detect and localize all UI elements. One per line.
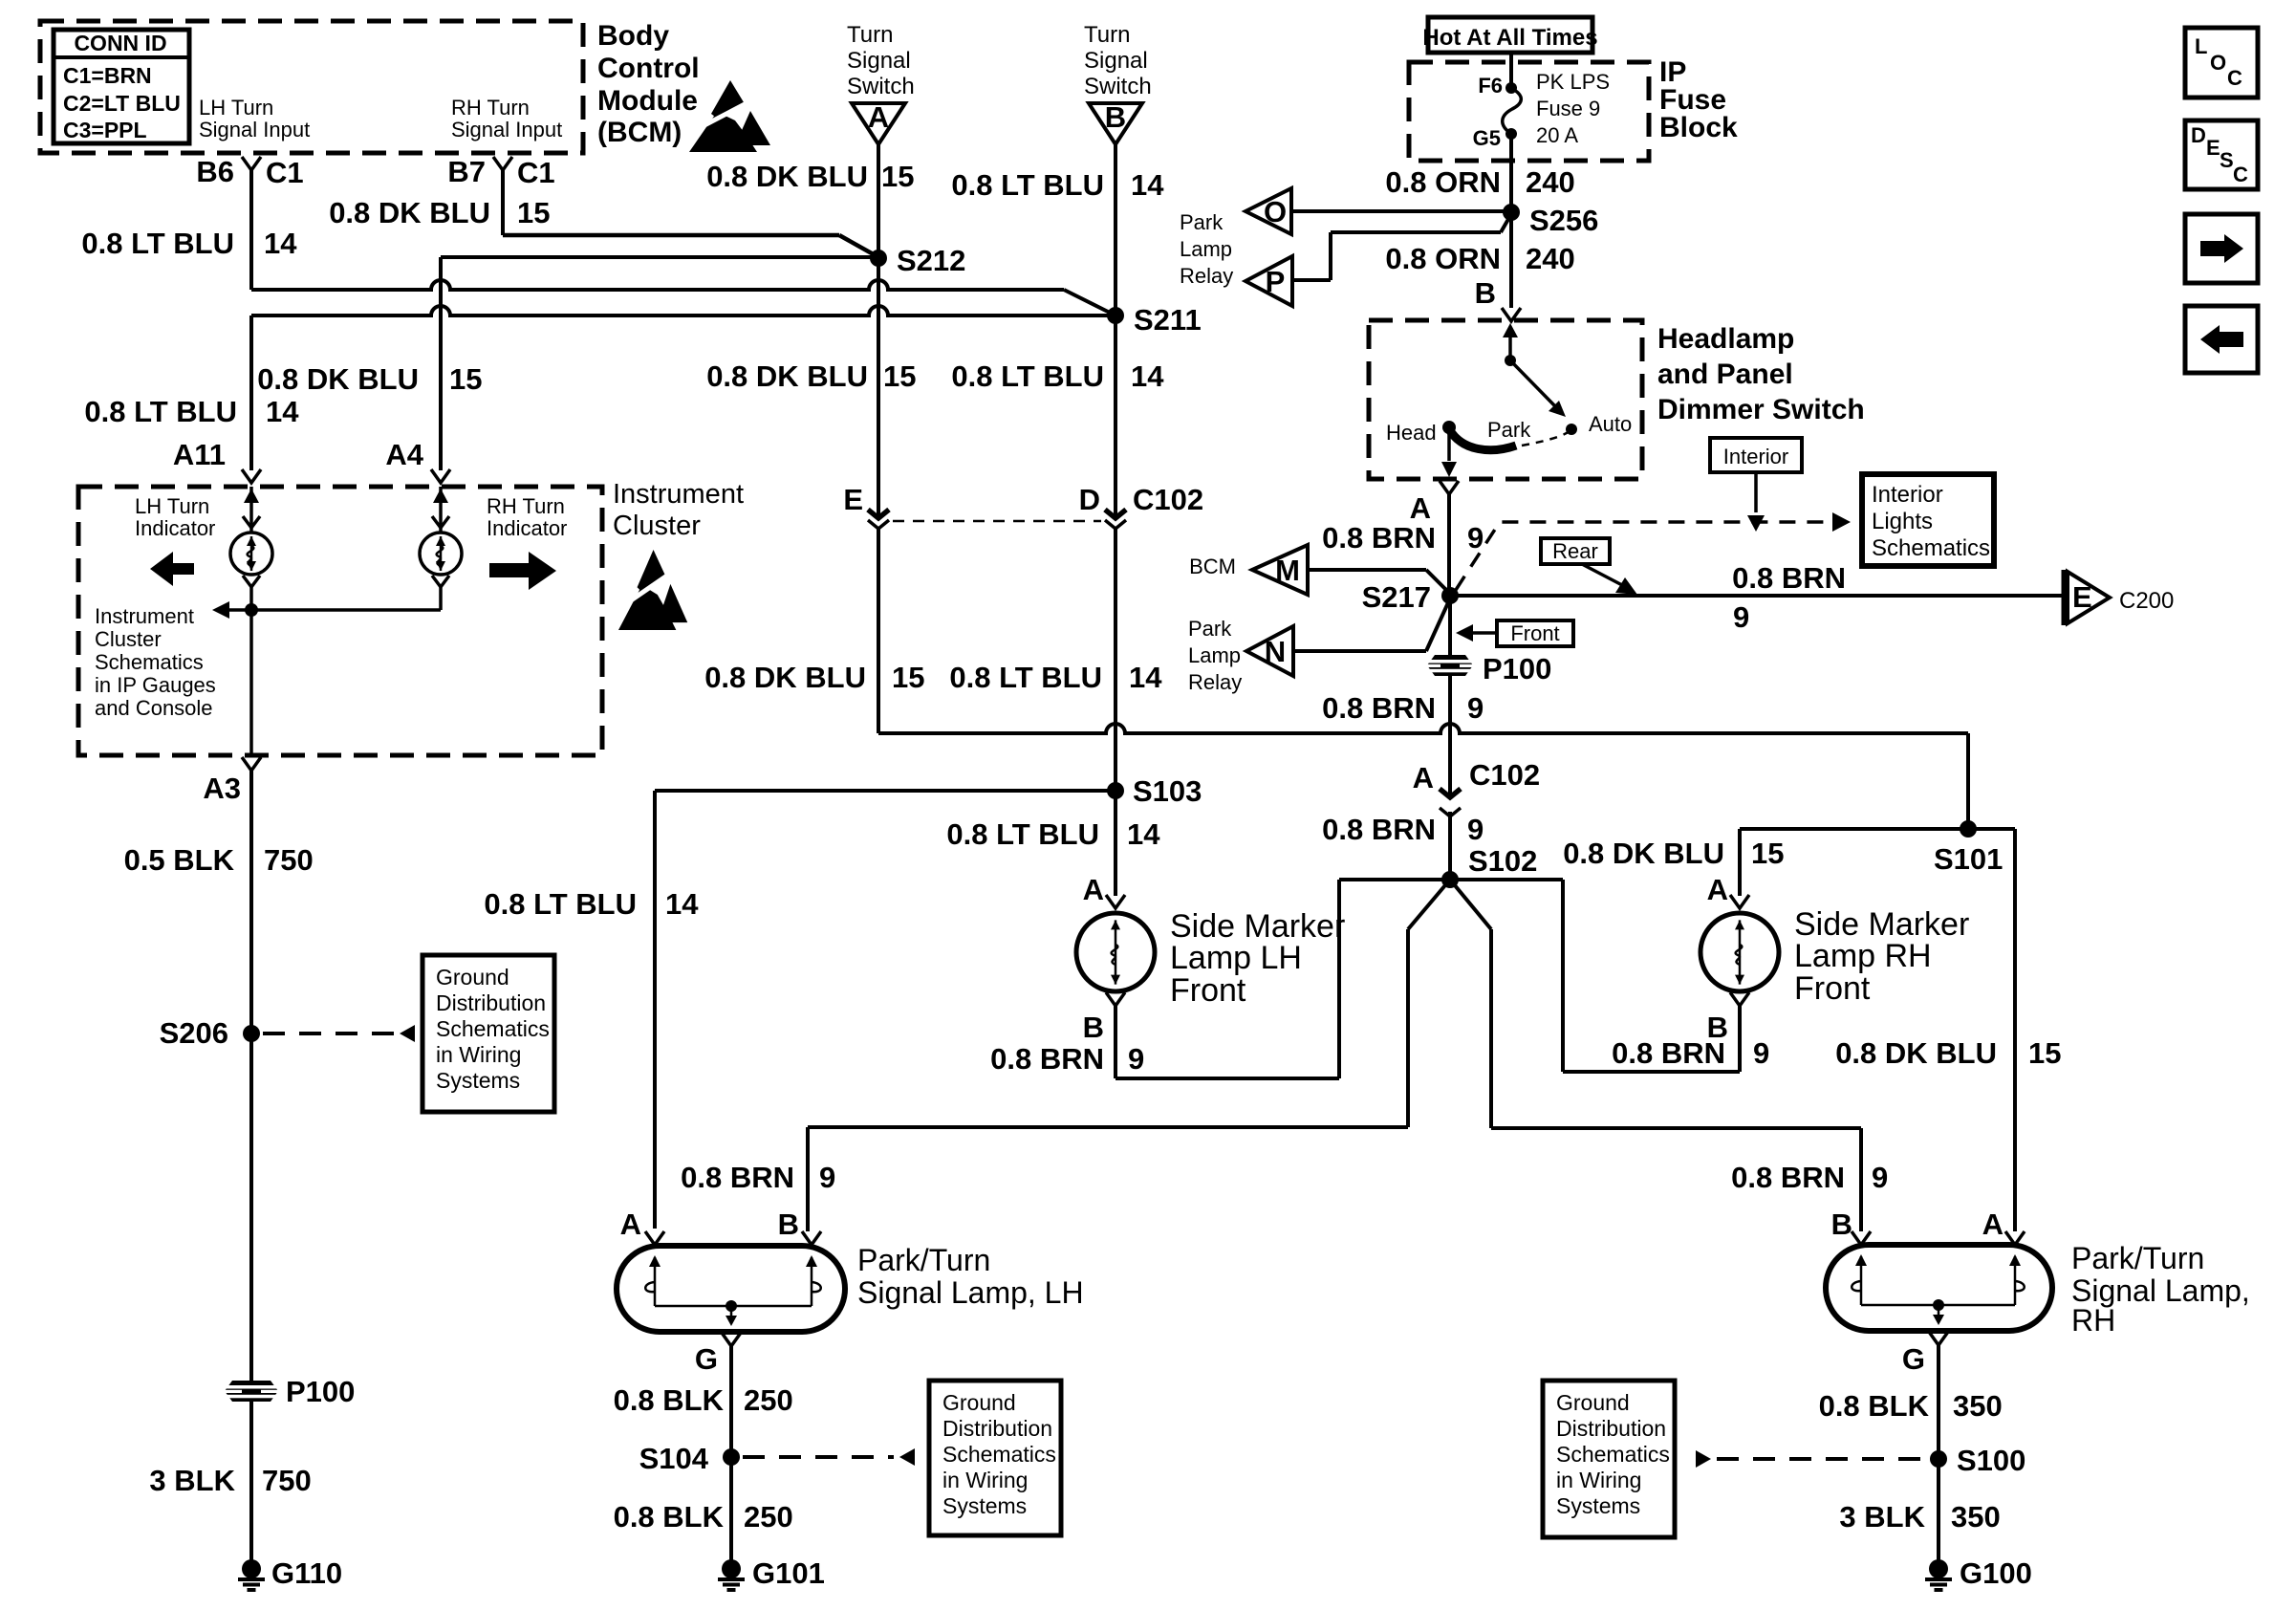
svg-text:0.8 BRN: 0.8 BRN: [1731, 1161, 1845, 1194]
connector pin A11 of instrument cluster: [242, 469, 261, 483]
dimmer switch dashed arc to Auto: [1522, 431, 1570, 446]
dashed reference from S104 to ground distribution box: [743, 1455, 894, 1459]
svg-text:14: 14: [1131, 168, 1164, 202]
svg-text:G101: G101: [752, 1556, 825, 1590]
svg-text:Turn: Turn: [847, 22, 893, 48]
wire 0.8 ORN 240 from fuse to S256: [1509, 134, 1513, 212]
svg-text:RH Turn: RH Turn: [487, 494, 565, 518]
label box Front: [1497, 620, 1573, 646]
connector pin B of LH side marker lamp: [1106, 992, 1125, 1006]
wire turn signal switch A line 0.8 DK BLU 15: [877, 144, 880, 507]
svg-text:in Wiring: in Wiring: [1556, 1468, 1641, 1492]
svg-text:G: G: [695, 1342, 718, 1376]
svg-text:F6: F6: [1478, 74, 1503, 98]
svg-text:Schematics: Schematics: [942, 1442, 1056, 1467]
svg-text:S: S: [2220, 148, 2234, 172]
svg-text:15: 15: [881, 160, 914, 193]
svg-text:9: 9: [1128, 1042, 1144, 1076]
connector C102 pin E: [877, 506, 880, 516]
grommet P100 left: [225, 1381, 278, 1402]
wire 3 BLK 750 from P100 to G110: [249, 1402, 253, 1560]
svg-text:B: B: [1105, 100, 1126, 134]
svg-text:PK LPS: PK LPS: [1536, 70, 1610, 94]
svg-text:Park: Park: [1180, 210, 1224, 234]
svg-text:Relay: Relay: [1180, 264, 1233, 288]
splice S104: [723, 1448, 740, 1466]
svg-text:in Wiring: in Wiring: [942, 1468, 1028, 1492]
wire LT BLU from S211 to instrument cluster A11: [251, 306, 1116, 315]
wire LT BLU from S103 to LH park/turn lamp: [655, 789, 1116, 793]
svg-text:C1=BRN: C1=BRN: [63, 63, 152, 88]
svg-text:15: 15: [1751, 837, 1784, 870]
splice S211: [1107, 307, 1124, 324]
splice S101: [1960, 820, 1977, 838]
svg-text:A: A: [620, 1207, 641, 1241]
svg-text:9: 9: [1753, 1036, 1769, 1070]
svg-text:RH Turn: RH Turn: [451, 96, 530, 120]
svg-text:M: M: [1275, 554, 1300, 587]
connector pin A below dimmer switch: [1440, 481, 1459, 494]
dimmer switch wiper arm to Auto: [1510, 360, 1556, 407]
connector pin A of LH park/turn lamp: [645, 1231, 664, 1245]
wire 0.8 BLK 250 from S104 to G101: [729, 1457, 733, 1560]
svg-text:B: B: [778, 1207, 799, 1241]
svg-text:0.8 BRN: 0.8 BRN: [1732, 561, 1846, 595]
connector park lamp relay P: [1245, 256, 1292, 306]
svg-text:A: A: [1707, 873, 1728, 906]
svg-text:9: 9: [819, 1161, 835, 1194]
dashed connector divider C102: [893, 520, 1101, 523]
dashed reference from S206 to ground distribution box: [263, 1032, 394, 1035]
wire 0.8 ORN 240 from S256 to dimmer switch B: [1509, 212, 1513, 308]
wire B7 RH turn signal input 0.8 DK BLU 15 down from BCM: [501, 170, 505, 235]
svg-text:Dimmer Switch: Dimmer Switch: [1657, 394, 1865, 425]
svg-text:Lamp RH: Lamp RH: [1794, 938, 1932, 974]
svg-text:0.8 DK BLU: 0.8 DK BLU: [706, 359, 868, 393]
svg-text:Lamp: Lamp: [1180, 237, 1232, 261]
svg-text:0.8 BRN: 0.8 BRN: [1322, 813, 1436, 846]
svg-text:0.5 BLK: 0.5 BLK: [124, 843, 235, 877]
connector entry arrows LH indicator: [249, 487, 253, 533]
label box Interior: [1710, 438, 1802, 472]
svg-text:0.8 ORN: 0.8 ORN: [1385, 165, 1501, 199]
svg-text:0.8 LT BLU: 0.8 LT BLU: [951, 168, 1104, 202]
svg-text:240: 240: [1526, 165, 1575, 199]
svg-text:Park: Park: [1487, 418, 1531, 442]
connector pin B7 C1 of BCM: [493, 157, 512, 170]
wire turn signal switch B line 0.8 LT BLU 14: [1114, 144, 1117, 507]
wire BRN from S102 to RH park/turn lamp B: [1450, 880, 1491, 929]
svg-text:0.8 LT BLU: 0.8 LT BLU: [84, 395, 237, 428]
svg-text:G: G: [1902, 1342, 1925, 1376]
CONN ID legend box: [54, 30, 189, 143]
svg-text:S211: S211: [1134, 303, 1202, 337]
splice S206: [243, 1025, 260, 1042]
reference box Ground Distribution Schematics middle: [929, 1381, 1061, 1535]
svg-text:Systems: Systems: [942, 1493, 1027, 1518]
svg-text:Interior: Interior: [1723, 445, 1788, 468]
svg-text:Cluster: Cluster: [613, 511, 701, 541]
ground G110: [242, 1559, 261, 1578]
connector Turn Signal Switch A: [852, 103, 905, 144]
svg-text:Lights: Lights: [1872, 509, 1933, 534]
connector exit LH indicator: [243, 576, 260, 587]
svg-text:Instrument: Instrument: [613, 479, 744, 510]
LH turn arrow icon: [150, 552, 194, 586]
svg-text:0.8 BLK: 0.8 BLK: [614, 1383, 725, 1417]
splice S100: [1930, 1450, 1947, 1468]
connector C102 pin A: [1448, 768, 1452, 795]
svg-text:Cluster: Cluster: [95, 627, 162, 651]
svg-text:S100: S100: [1957, 1444, 2025, 1477]
svg-text:14: 14: [1131, 359, 1164, 393]
fuse block dashed outline: [1409, 62, 1649, 161]
wire from hot feed into fuse block: [1509, 53, 1513, 88]
wire BRN from S102 to LH side marker B: [1339, 878, 1450, 881]
module instrument cluster dashed outline: [78, 487, 602, 755]
svg-text:Instrument: Instrument: [95, 604, 194, 628]
RH turn arrow icon: [489, 552, 556, 590]
svg-text:C1: C1: [266, 156, 304, 189]
svg-text:15: 15: [883, 359, 916, 393]
splice S256: [1503, 204, 1520, 221]
svg-text:and Panel: and Panel: [1657, 359, 1793, 390]
svg-text:14: 14: [665, 887, 699, 921]
ESD sensitivity symbol at BCM: [689, 112, 757, 152]
svg-text:0.8 DK BLU: 0.8 DK BLU: [1835, 1036, 1997, 1070]
wire joining indicators to A3 output: [251, 608, 441, 612]
svg-text:0.8 BRN: 0.8 BRN: [990, 1042, 1104, 1076]
svg-text:C: C: [2227, 66, 2242, 90]
connector park lamp relay N: [1246, 626, 1293, 676]
dimmer switch common feed arrow: [1508, 337, 1512, 359]
svg-text:Relay: Relay: [1188, 670, 1242, 694]
svg-text:Indicator: Indicator: [487, 516, 567, 540]
connector pin A3 of instrument cluster: [242, 757, 261, 771]
svg-text:C1: C1: [517, 156, 555, 189]
svg-text:(BCM): (BCM): [597, 117, 682, 148]
svg-text:CONN ID: CONN ID: [74, 31, 166, 55]
svg-text:C200: C200: [2119, 588, 2174, 614]
wire DK BLU from B7 to splice S212: [503, 233, 839, 238]
svg-text:A11: A11: [173, 438, 226, 471]
svg-text:Fuse 9: Fuse 9: [1536, 97, 1600, 120]
svg-text:S104: S104: [639, 1442, 709, 1475]
svg-text:750: 750: [264, 843, 314, 877]
svg-text:350: 350: [1951, 1500, 2001, 1534]
svg-text:Signal: Signal: [1084, 48, 1148, 74]
svg-text:RH: RH: [2071, 1303, 2115, 1338]
connector pin B of RH park/turn lamp: [1852, 1231, 1871, 1245]
svg-text:0.8 BLK: 0.8 BLK: [614, 1500, 725, 1534]
svg-text:E: E: [2072, 580, 2092, 614]
dashed reference from ground distribution box to S100: [1696, 1450, 1711, 1468]
svg-text:Hot At All Times: Hot At All Times: [1422, 25, 1597, 51]
svg-text:C2=LT BLU: C2=LT BLU: [63, 91, 181, 116]
svg-text:S102: S102: [1468, 844, 1537, 878]
svg-text:Park: Park: [1188, 617, 1232, 641]
svg-text:0.8 BRN: 0.8 BRN: [1322, 521, 1436, 555]
svg-text:0.8 BRN: 0.8 BRN: [681, 1161, 794, 1194]
svg-text:O: O: [2210, 51, 2226, 75]
lamp RH Turn Indicator: [439, 487, 443, 533]
svg-text:Module: Module: [597, 85, 698, 117]
wire DK BLU from S212 to instrument cluster A4: [441, 255, 878, 259]
svg-text:Front: Front: [1170, 972, 1246, 1009]
dimmer switch contact Head: [1442, 421, 1456, 434]
svg-text:15: 15: [892, 661, 924, 694]
arrow from Front box to wire: [1473, 631, 1497, 635]
connector exit RH indicator: [432, 576, 449, 587]
svg-text:Schematics: Schematics: [1872, 535, 1990, 561]
wire 0.8 LT BLU 14 from C102-D down to S103: [1114, 527, 1117, 896]
wire to BCM M: [1308, 568, 1426, 572]
svg-text:Ground: Ground: [1556, 1390, 1630, 1415]
nav box LOC: [2185, 28, 2258, 98]
svg-text:0.8 BLK: 0.8 BLK: [1819, 1389, 1930, 1423]
svg-text:15: 15: [517, 196, 550, 229]
svg-text:Systems: Systems: [436, 1068, 520, 1093]
wire 3 BLK 350 from S100 to G100: [1937, 1459, 1940, 1560]
ground G101: [722, 1559, 741, 1578]
svg-text:Headlamp: Headlamp: [1657, 323, 1794, 355]
module U1 Body Control Module dashed outline: [40, 21, 583, 153]
lamp Park/Turn Signal Lamp LH: [617, 1246, 845, 1332]
svg-text:A: A: [1982, 1207, 2004, 1241]
svg-text:Systems: Systems: [1556, 1493, 1640, 1518]
reference box Interior Lights Schematics: [1862, 474, 1994, 566]
reference box Ground Distribution Schematics right: [1543, 1381, 1675, 1537]
svg-text:Indicator: Indicator: [135, 516, 215, 540]
svg-text:Lamp: Lamp: [1188, 643, 1241, 667]
svg-text:15: 15: [449, 362, 482, 396]
connector pin A of LH side marker lamp: [1106, 895, 1125, 908]
svg-text:S101: S101: [1934, 842, 2003, 876]
ground G100: [1929, 1559, 1948, 1578]
arrow from Interior box to dashed route: [1754, 472, 1758, 512]
svg-text:9: 9: [1872, 1161, 1888, 1194]
svg-text:E: E: [2206, 136, 2220, 160]
svg-text:Signal Input: Signal Input: [199, 118, 310, 141]
svg-text:250: 250: [744, 1383, 793, 1417]
svg-text:Distribution: Distribution: [942, 1416, 1052, 1441]
svg-text:240: 240: [1526, 242, 1575, 275]
connector C200 pin E: [2062, 570, 2067, 625]
svg-text:Signal: Signal: [847, 48, 911, 74]
dimmer switch output arrow down to A: [1447, 429, 1451, 461]
splice S217: [1441, 587, 1459, 604]
dimmer switch contact Auto: [1566, 424, 1577, 435]
svg-text:Turn: Turn: [1084, 22, 1130, 48]
nav box arrow right: [2185, 214, 2258, 283]
wire to park lamp relay P: [1501, 214, 1511, 232]
lamp Park/Turn Signal Lamp RH: [1826, 1245, 2052, 1331]
svg-text:D: D: [1079, 483, 1100, 516]
svg-text:Control: Control: [597, 53, 700, 84]
svg-text:Distribution: Distribution: [436, 990, 546, 1015]
svg-text:B6: B6: [196, 155, 234, 188]
svg-text:Park/Turn: Park/Turn: [857, 1243, 990, 1277]
svg-text:Head: Head: [1386, 421, 1437, 445]
svg-text:0.8 DK BLU: 0.8 DK BLU: [257, 362, 419, 396]
lamp Side Marker RH Front: [1700, 913, 1779, 991]
svg-text:Ground: Ground: [436, 965, 509, 990]
splice S212: [870, 250, 887, 267]
svg-text:Lamp LH: Lamp LH: [1170, 940, 1302, 976]
svg-text:S206: S206: [160, 1016, 228, 1050]
svg-text:9: 9: [1733, 600, 1749, 634]
svg-text:Switch: Switch: [1084, 74, 1152, 99]
dimmer switch thick arc Head position: [1449, 429, 1516, 450]
connector pin B of LH park/turn lamp: [802, 1231, 821, 1245]
reference box Ground Distribution Schematics left: [422, 955, 554, 1112]
grommet P100 front: [1448, 596, 1452, 655]
svg-text:0.8 LT BLU: 0.8 LT BLU: [81, 227, 234, 260]
svg-text:14: 14: [264, 227, 297, 260]
svg-text:3 BLK: 3 BLK: [149, 1464, 235, 1497]
wire 0.8 BLK 350 from RH lamp G to S100: [1937, 1345, 1940, 1459]
svg-text:0.8 DK BLU: 0.8 DK BLU: [706, 160, 868, 193]
wire 0.8 BLK 250 from LH lamp G to S104: [729, 1346, 733, 1457]
svg-text:G100: G100: [1960, 1556, 2032, 1590]
svg-text:Signal Lamp, LH: Signal Lamp, LH: [857, 1275, 1084, 1310]
svg-text:C102: C102: [1469, 758, 1540, 792]
svg-text:0.8 DK BLU: 0.8 DK BLU: [704, 661, 866, 694]
wire 0.8 DK BLU 15 from C102-E down and right to S101: [877, 527, 880, 733]
svg-text:Switch: Switch: [847, 74, 915, 99]
svg-text:750: 750: [262, 1464, 312, 1497]
svg-text:0.8 DK BLU: 0.8 DK BLU: [329, 196, 490, 229]
lamp LH Turn Indicator: [230, 533, 272, 575]
svg-text:Front: Front: [1794, 970, 1871, 1007]
wire from S206 to P100: [249, 1033, 253, 1381]
svg-text:Schematics: Schematics: [436, 1016, 550, 1041]
svg-text:Park/Turn: Park/Turn: [2071, 1241, 2204, 1275]
wire 0.8 BRN 9 from S217 to C200-E rear lamps: [1450, 594, 2064, 598]
svg-text:350: 350: [1953, 1389, 2003, 1423]
label Hot At All Times box: [1428, 17, 1592, 53]
svg-text:O: O: [1264, 195, 1287, 228]
svg-text:9: 9: [1467, 521, 1484, 555]
svg-text:250: 250: [744, 1500, 793, 1534]
wire DK BLU from S101 to RH side marker A and RH park lamp A: [1740, 827, 2015, 831]
wire LT BLU from B6 to splice S211: [251, 280, 1064, 290]
svg-text:B: B: [1083, 1011, 1104, 1044]
svg-text:L: L: [2195, 34, 2207, 58]
svg-text:B: B: [1707, 1011, 1728, 1044]
fuse F1 PK LPS Fuse 9 20A: [1505, 82, 1517, 94]
wire 0.8 BRN 9 from P100 to C102-A: [1448, 676, 1452, 768]
svg-text:G110: G110: [271, 1556, 342, 1590]
connector park lamp relay O: [1245, 188, 1291, 234]
connector pin B of RH side marker lamp: [1730, 992, 1749, 1006]
svg-text:0.8 LT BLU: 0.8 LT BLU: [949, 661, 1102, 694]
connector pin B6 C1 of BCM: [242, 157, 261, 170]
svg-text:9: 9: [1467, 813, 1484, 846]
svg-text:9: 9: [1467, 691, 1484, 725]
svg-text:B: B: [1831, 1207, 1852, 1241]
svg-text:G5: G5: [1473, 126, 1501, 150]
svg-text:C102: C102: [1133, 483, 1203, 516]
wire to park lamp relay N: [1293, 649, 1426, 653]
svg-text:Signal Input: Signal Input: [451, 118, 562, 141]
svg-text:A4: A4: [385, 438, 423, 471]
svg-text:3 BLK: 3 BLK: [1839, 1500, 1925, 1534]
svg-text:14: 14: [1127, 817, 1160, 851]
connector pin A of RH side marker lamp: [1730, 895, 1749, 908]
svg-text:A: A: [1413, 761, 1434, 794]
svg-text:S217: S217: [1362, 580, 1431, 614]
svg-text:Auto: Auto: [1589, 412, 1632, 436]
svg-text:P: P: [1266, 265, 1286, 298]
svg-text:0.8 LT BLU: 0.8 LT BLU: [484, 887, 637, 921]
switch SW1 Headlamp and Panel Dimmer Switch dashed outline: [1369, 320, 1642, 479]
connector pin G of LH park/turn lamp: [722, 1333, 741, 1346]
svg-text:14: 14: [266, 395, 299, 428]
svg-text:LH Turn: LH Turn: [199, 96, 273, 120]
wire B6 LH turn signal input 0.8 LT BLU 14 down from BCM: [249, 170, 253, 290]
dashed reference route from S217 to interior lights schematics: [1456, 522, 1830, 590]
svg-text:Ground: Ground: [942, 1390, 1016, 1415]
connector C102 pin D: [1114, 506, 1117, 516]
arrow to instrument cluster schematics reference: [229, 608, 251, 612]
svg-text:A: A: [1410, 491, 1431, 525]
wire 0.8 BRN 9 from C102-A to S102: [1448, 812, 1452, 880]
wire BRN from S102 to RH side marker B: [1450, 878, 1563, 881]
svg-text:A: A: [1083, 873, 1104, 906]
svg-text:D: D: [2191, 123, 2206, 147]
svg-text:Body: Body: [597, 20, 669, 52]
svg-text:BCM: BCM: [1189, 555, 1236, 578]
svg-text:P100: P100: [286, 1375, 355, 1408]
arrow from Rear box to wire: [1582, 564, 1622, 585]
svg-text:N: N: [1265, 635, 1286, 668]
wire 0.8 BRN 9 from dimmer A to S217: [1447, 494, 1451, 596]
nav box DESC: [2185, 120, 2258, 189]
svg-text:E: E: [843, 483, 863, 516]
svg-text:14: 14: [1129, 661, 1162, 694]
connector pin B of dimmer switch: [1502, 308, 1521, 321]
svg-text:Distribution: Distribution: [1556, 1416, 1666, 1441]
svg-text:C: C: [2233, 163, 2248, 186]
svg-text:A: A: [868, 100, 889, 134]
svg-text:Rear: Rear: [1552, 539, 1598, 563]
svg-text:0.8 ORN: 0.8 ORN: [1385, 242, 1501, 275]
svg-text:S212: S212: [897, 244, 965, 277]
ESD sensitivity symbol at instrument cluster: [618, 585, 676, 630]
svg-text:Block: Block: [1659, 112, 1738, 143]
connector pin A of RH park/turn lamp: [2005, 1231, 2025, 1245]
svg-text:S103: S103: [1133, 774, 1202, 808]
wire BRN from S102 to LH park/turn lamp B: [1408, 880, 1450, 929]
svg-text:in Wiring: in Wiring: [436, 1042, 521, 1067]
svg-text:0.8 BRN: 0.8 BRN: [1322, 691, 1436, 725]
connector pin G of RH park/turn lamp: [1929, 1332, 1948, 1345]
connector pin A4 of instrument cluster: [431, 469, 450, 483]
svg-text:Schematics: Schematics: [95, 650, 204, 674]
svg-text:in IP Gauges: in IP Gauges: [95, 673, 216, 697]
splice S102: [1441, 871, 1459, 888]
svg-text:P100: P100: [1483, 652, 1551, 685]
connector Turn Signal Switch B: [1089, 103, 1142, 144]
svg-text:and Console: and Console: [95, 696, 213, 720]
label box Rear: [1541, 538, 1610, 564]
svg-text:A3: A3: [203, 772, 241, 805]
svg-text:B: B: [1475, 276, 1496, 310]
svg-text:0.8 LT BLU: 0.8 LT BLU: [946, 817, 1099, 851]
svg-text:C3=PPL: C3=PPL: [63, 118, 147, 142]
wire to park lamp relay O: [1291, 209, 1511, 213]
